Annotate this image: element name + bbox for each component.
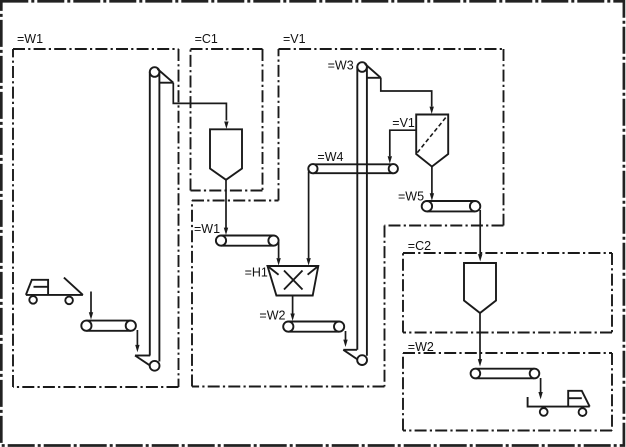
svg-text:=V1: =V1 — [392, 116, 415, 130]
wire: hopper =C1 to conveyor =W1 — [224, 180, 228, 235]
crusher =H1 — [268, 266, 319, 296]
hopper =C1 — [210, 129, 242, 180]
svg-text:=W2: =W2 — [259, 308, 285, 322]
screen =V1 (sieve with hopper bottom) — [416, 115, 448, 167]
truck 1 (dump truck, tipping into plant) — [26, 278, 83, 305]
wire: conveyor =W2 to bucket elevator 2 — [343, 331, 347, 347]
svg-text:=C1: =C1 — [195, 32, 218, 46]
wire: elevator 1 head to hopper =C1 — [173, 83, 228, 129]
conveyor =W2 (crusher discharge) — [283, 322, 344, 332]
wire: elevator 2 head to screen =V1 — [381, 78, 434, 114]
wire: feed conveyor to bucket elevator 1 — [135, 330, 139, 352]
wire: conveyor =W5 to hopper =C2 — [478, 210, 482, 262]
bucket elevator 1 (in =W1) — [150, 67, 174, 371]
wire: conveyor =W2 to truck 2 — [538, 378, 542, 399]
svg-text:=W1: =W1 — [17, 32, 43, 46]
wire: hopper =C2 to conveyor =W2 (loading) — [478, 313, 482, 367]
svg-text:=W5: =W5 — [398, 189, 424, 203]
wire: crusher =H1 to conveyor =W2 — [290, 296, 294, 321]
location box =C1 — [191, 49, 263, 191]
svg-text:=H1: =H1 — [245, 265, 268, 279]
location box =W2 (truck loading) — [403, 353, 612, 431]
location box =V1 (L-shaped) — [192, 49, 504, 387]
wire: screen fines to conveyor =W5 — [430, 167, 434, 201]
wire: screen oversize to conveyor =W4 — [388, 130, 417, 163]
conveyor =W5 — [422, 201, 481, 211]
conveyor =W1 (hopper discharge) — [216, 236, 279, 246]
wire: conveyor =W4 to crusher =H1 (recycle) — [306, 172, 310, 266]
location box =W1 — [13, 49, 179, 387]
bucket elevator 2 =W3 — [357, 62, 381, 365]
chute into elevator 2 boot — [343, 350, 358, 360]
wire: conveyor =W1 to crusher =H1 — [276, 242, 280, 266]
hopper =C2 — [464, 263, 496, 313]
svg-text:=W1: =W1 — [194, 222, 220, 236]
location box =C2 — [403, 253, 612, 333]
svg-text:=W2: =W2 — [408, 340, 434, 354]
svg-text:=C2: =C2 — [408, 239, 431, 253]
feed conveyor (under truck 1) — [81, 321, 136, 331]
truck 2 (flatbed being loaded) — [528, 391, 590, 416]
svg-text:=W3: =W3 — [328, 58, 354, 72]
svg-text:=W4: =W4 — [317, 150, 343, 164]
svg-text:=V1: =V1 — [283, 32, 306, 46]
conveyor =W2 (truck loading) — [471, 369, 540, 379]
wire: truck 1 to feed conveyor — [89, 292, 93, 320]
conveyor =W4 (recycle) — [308, 164, 398, 173]
chute into elevator 1 boot — [135, 356, 151, 367]
